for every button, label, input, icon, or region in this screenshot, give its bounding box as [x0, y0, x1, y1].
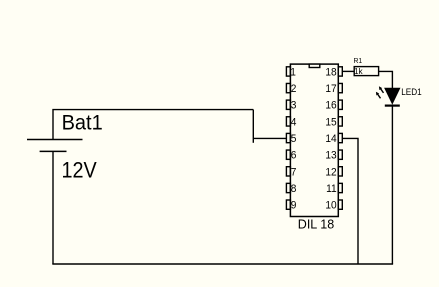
- pin 12: [325, 166, 342, 179]
- svg-text:12: 12: [325, 166, 336, 179]
- svg-text:4: 4: [291, 116, 297, 129]
- svg-text:15: 15: [325, 116, 336, 129]
- svg-text:6: 6: [291, 149, 297, 162]
- svg-text:14: 14: [325, 133, 336, 146]
- svg-text:17: 17: [325, 83, 336, 96]
- pin 17: [325, 83, 342, 96]
- wire battery positive to top rail: [53, 110, 253, 140]
- label Bat1: [62, 111, 103, 135]
- svg-text:5: 5: [291, 133, 297, 146]
- svg-text:3: 3: [291, 99, 297, 112]
- pin 7: [286, 166, 296, 179]
- pin 5: [286, 133, 296, 146]
- pin 3: [286, 99, 296, 112]
- svg-text:18: 18: [325, 66, 336, 79]
- pin 10: [325, 199, 342, 212]
- wire LED cathode to bottom rail: [391, 106, 393, 264]
- wire R1 to LED anode: [379, 71, 393, 88]
- wire pin 18 to R1: [342, 70, 354, 72]
- svg-text:8: 8: [291, 182, 297, 195]
- pin 4: [286, 116, 296, 129]
- svg-text:12V: 12V: [62, 159, 97, 183]
- LED LED1 cathode bar: [385, 104, 400, 106]
- svg-text:LED1: LED1: [401, 86, 422, 97]
- svg-text:13: 13: [325, 149, 336, 162]
- LED light arrow upper: [379, 86, 384, 93]
- svg-text:10: 10: [325, 199, 336, 212]
- wire battery negative down: [52, 151, 54, 264]
- battery Bat1 positive plate: [27, 139, 83, 141]
- pin 15: [325, 116, 342, 129]
- pin 1: [286, 66, 295, 79]
- pin 13: [325, 149, 342, 162]
- LED LED1 triangle: [385, 88, 400, 103]
- wire vertical drop at node x253: [252, 110, 254, 143]
- pin 8: [286, 182, 296, 195]
- wire bottom rail: [52, 263, 393, 265]
- resistor R1 body: [354, 67, 378, 76]
- value label 1k: [354, 67, 364, 76]
- svg-text:9: 9: [291, 199, 297, 212]
- svg-text:2: 2: [291, 83, 297, 96]
- label R1: [354, 58, 363, 65]
- label DIL 18: [298, 216, 334, 231]
- value label 12V: [62, 159, 97, 183]
- pin 6: [286, 149, 296, 162]
- pin 14: [325, 133, 342, 146]
- label LED1: [401, 86, 422, 97]
- pin 18: [325, 66, 342, 79]
- IC U1 DIL18 body: [290, 64, 338, 216]
- svg-text:1: 1: [290, 66, 296, 79]
- wire to pin 5: [253, 137, 286, 139]
- pin 2: [286, 83, 296, 96]
- svg-text:16: 16: [325, 99, 336, 112]
- svg-text:DIL 18: DIL 18: [298, 216, 334, 231]
- pin 11: [326, 182, 342, 195]
- svg-text:1k: 1k: [354, 67, 364, 76]
- LED light arrow lower: [376, 92, 381, 99]
- battery Bat1 negative plate: [40, 150, 67, 152]
- wire pin 14 to bottom rail: [342, 138, 358, 264]
- svg-text:R1: R1: [354, 58, 363, 65]
- svg-text:Bat1: Bat1: [62, 111, 103, 135]
- pin 9: [286, 199, 296, 212]
- pin-1 notch: [309, 64, 320, 67]
- svg-text:7: 7: [291, 166, 297, 179]
- svg-text:11: 11: [326, 182, 337, 195]
- pin 16: [325, 99, 342, 112]
